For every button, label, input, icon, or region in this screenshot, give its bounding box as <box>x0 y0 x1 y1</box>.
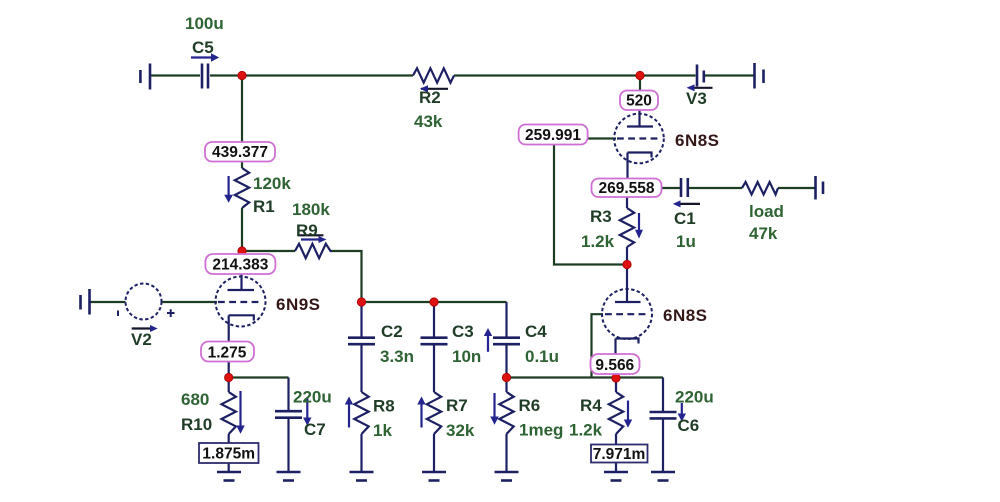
svg-text:R6: R6 <box>519 396 541 415</box>
svg-text:220u: 220u <box>293 388 332 407</box>
svg-text:3.3n: 3.3n <box>380 347 414 366</box>
wire 259.991 label down <box>554 145 627 265</box>
battery V3 <box>697 65 704 87</box>
current label 7.971m <box>591 445 648 464</box>
terminal T4 V2-left <box>81 289 90 315</box>
svg-text:C5: C5 <box>192 38 214 57</box>
svg-text:R2: R2 <box>419 88 441 107</box>
current label 1.875m <box>199 443 259 463</box>
svg-text:C1: C1 <box>674 209 696 228</box>
node dot C3 <box>430 298 438 306</box>
capacitor C3 <box>421 338 448 345</box>
arrow C1 <box>673 200 700 207</box>
wire label to R1 <box>241 161 243 168</box>
svg-text:V3: V3 <box>686 89 707 108</box>
ground C6 <box>651 472 675 481</box>
wire node2 to R9 <box>242 250 295 252</box>
lead tube2 lower plate <box>626 265 628 303</box>
lead R7 to ground <box>433 434 435 471</box>
node label 1.275 <box>201 342 254 362</box>
node dot R3/plate <box>623 260 631 268</box>
svg-text:1u: 1u <box>676 232 696 251</box>
lead R8 to ground <box>360 434 362 471</box>
arrow V3 <box>687 84 713 91</box>
lead R10 to ground <box>228 434 230 471</box>
tube V5 plate <box>627 125 653 127</box>
tube V5 cathode <box>628 153 652 158</box>
resistor R9 <box>295 244 332 258</box>
svg-text:C6: C6 <box>678 416 700 435</box>
node dot C5/R1 <box>238 71 246 79</box>
resistor R7 <box>427 392 441 434</box>
lead C2 to R8 <box>360 345 362 392</box>
svg-text:214.383: 214.383 <box>212 257 268 274</box>
resistor R1 <box>235 168 249 208</box>
resistor R2 <box>413 68 454 82</box>
svg-text:269.558: 269.558 <box>598 180 654 197</box>
svg-text:259.991: 259.991 <box>525 127 581 144</box>
node label 269.558 <box>592 179 662 198</box>
svg-text:120k: 120k <box>253 174 291 193</box>
tube V1 plate <box>228 289 255 291</box>
capacitor C4 <box>493 338 520 345</box>
svg-text:1.2k: 1.2k <box>569 421 603 440</box>
ground R6 <box>495 472 519 481</box>
svg-text:439.377: 439.377 <box>212 144 268 161</box>
wire R9 to bus corner <box>332 251 362 302</box>
lead C6 to ground <box>662 419 664 471</box>
arrow C3C4 up <box>484 328 492 352</box>
lead C4 to node <box>505 345 507 377</box>
tube V5 grid <box>617 137 661 139</box>
node dot R1/R9 <box>238 247 246 255</box>
lead C3 top <box>433 302 435 337</box>
resistor R8 <box>354 392 368 434</box>
arrow C7 <box>303 398 311 426</box>
arrow R3 <box>635 213 643 239</box>
tube V1 cathode <box>229 315 254 320</box>
terminal T1 top-left <box>140 64 150 90</box>
node dot C4/R6 <box>502 373 510 381</box>
tube V4 plate <box>615 301 641 303</box>
wire tube1 cathode node right <box>229 376 289 378</box>
ground R8 <box>350 472 374 481</box>
lead tube2 upper plate <box>638 111 640 127</box>
tube V4 grid <box>605 313 649 315</box>
arrow R4 <box>624 401 632 428</box>
lead R3 top <box>626 197 628 208</box>
lead R4 top <box>615 378 617 392</box>
svg-text:R9: R9 <box>296 221 318 240</box>
arrow R1 <box>224 176 233 203</box>
node label 259.991 <box>519 125 588 145</box>
wire EQ bus <box>362 301 507 303</box>
wire grid tube2 lower down <box>592 314 604 377</box>
node dot 520 <box>636 71 644 79</box>
arrow C5 <box>191 53 219 62</box>
wire V2 to tube1 grid <box>162 301 218 303</box>
wire lower bus <box>507 376 664 378</box>
lead C4 top <box>505 302 507 337</box>
resistor R4 <box>609 392 623 434</box>
svg-text:9.566: 9.566 <box>595 357 634 374</box>
svg-text:6N8S: 6N8S <box>675 131 720 150</box>
svg-text:R10: R10 <box>181 415 212 434</box>
node label 214.383 <box>205 254 275 274</box>
lead tube2 lower cathode <box>614 339 616 379</box>
wire C1 to load <box>689 187 743 189</box>
capacitor C6 <box>650 412 677 418</box>
arrow R10 <box>236 391 245 434</box>
svg-text:C7: C7 <box>304 420 326 439</box>
svg-text:V2: V2 <box>131 330 152 349</box>
node dot C2 <box>357 298 365 306</box>
arrow R6 <box>490 393 499 425</box>
node dot cathode1 <box>225 373 233 381</box>
svg-text:7.971m: 7.971m <box>593 446 646 463</box>
SYMBOL LEADS (navy) <box>229 111 663 472</box>
svg-text:100u: 100u <box>185 14 224 33</box>
lead R10 top <box>228 378 230 393</box>
tube V4 cathode <box>616 339 639 344</box>
svg-text:1.2k: 1.2k <box>581 232 615 251</box>
arrow R8 up <box>345 397 353 428</box>
svg-text:C2: C2 <box>381 322 403 341</box>
lead tube2 upper cathode <box>626 153 628 179</box>
lead R6 to ground <box>505 434 507 471</box>
tube V5 6N8S upper envelope <box>614 114 664 164</box>
lead C7 top <box>287 378 289 412</box>
resistor R10 <box>222 392 236 434</box>
wire V2 terminal to source <box>90 301 126 303</box>
arrow R9 <box>298 235 327 243</box>
svg-text:47k: 47k <box>749 224 778 243</box>
lead C3 to R7 <box>433 345 435 392</box>
node label 439.377 <box>205 142 275 162</box>
lead tube1 cathode <box>228 315 230 342</box>
capacitor C7 <box>275 411 302 418</box>
svg-text:6N9S: 6N9S <box>276 295 321 314</box>
svg-text:1meg: 1meg <box>519 421 563 440</box>
tube V1 6N9S envelope <box>216 277 266 327</box>
terminal T2 top-right <box>755 63 764 89</box>
svg-text:680: 680 <box>181 390 209 409</box>
wire 259.991 label to grid <box>588 137 616 139</box>
svg-text:C3: C3 <box>452 322 474 341</box>
arrow V2 <box>132 325 158 332</box>
lead C6 top <box>662 378 664 413</box>
wire top rail mid <box>210 74 413 76</box>
wire load to terminal <box>778 187 815 189</box>
svg-text:R1: R1 <box>253 197 275 216</box>
ground C7 <box>277 472 301 481</box>
VOLTAGE LABELS (magenta boxes) <box>199 91 662 464</box>
svg-text:R3: R3 <box>590 207 612 226</box>
svg-text:1.875m: 1.875m <box>202 446 255 463</box>
lead R3 bottom <box>626 247 628 265</box>
CURRENT/DIRECTION ARROWS (blue) <box>132 53 713 434</box>
tube V4 6N8S lower envelope <box>602 289 652 339</box>
svg-text:load: load <box>749 202 784 221</box>
svg-text:32k: 32k <box>446 421 475 440</box>
svg-text:520: 520 <box>626 93 652 110</box>
lead C7 to ground <box>287 419 289 471</box>
ground R7 <box>422 472 446 481</box>
svg-text:0.1u: 0.1u <box>525 347 559 366</box>
svg-text:R7: R7 <box>446 396 468 415</box>
wire R1 to node2 <box>241 208 243 251</box>
wire node1 down to label <box>241 76 243 143</box>
svg-text:6N8S: 6N8S <box>663 306 708 325</box>
node label 520 <box>620 91 658 111</box>
node label 9.566 <box>591 354 640 374</box>
capacitor C2 <box>348 338 375 345</box>
node dot cathode2/R4 <box>612 374 620 382</box>
lead C2 top <box>360 302 362 337</box>
resistor load <box>742 182 778 195</box>
terminal T3 load-right <box>816 176 824 200</box>
ground R10 <box>217 472 241 481</box>
svg-text:43k: 43k <box>414 112 443 131</box>
V2 minus tick <box>117 311 119 317</box>
ground R4 <box>604 472 628 481</box>
lead R6 top <box>505 378 507 393</box>
svg-text:C4: C4 <box>525 322 547 341</box>
wire top rail right <box>454 74 696 76</box>
arrow R2 <box>420 85 448 92</box>
resistor R3 <box>620 208 634 247</box>
svg-text:180k: 180k <box>292 200 330 219</box>
svg-text:R4: R4 <box>580 396 602 415</box>
V2 plus sign <box>167 309 175 317</box>
lead tube1 plate <box>240 274 242 290</box>
capacitor C5 <box>202 64 208 89</box>
svg-text:R8: R8 <box>373 397 395 416</box>
wire node top to 520 label <box>639 76 641 91</box>
svg-text:10n: 10n <box>452 347 481 366</box>
lead tube1 cathode to node <box>228 362 230 378</box>
svg-text:1.275: 1.275 <box>208 344 247 361</box>
tube V1 grid <box>218 301 262 303</box>
source V2 <box>126 284 162 320</box>
capacitor C1 <box>681 178 688 197</box>
arrow C6 <box>678 403 686 422</box>
svg-text:1k: 1k <box>373 421 392 440</box>
wire top rail left <box>150 74 200 76</box>
resistor R6 <box>499 392 513 434</box>
wire 269.558 label to C1 <box>662 187 681 189</box>
svg-text:220u: 220u <box>675 388 714 407</box>
GROUNDS <box>217 472 675 481</box>
arrow R7 up <box>417 397 425 428</box>
wire battery to terminal <box>705 74 755 76</box>
lead R4 to ground <box>615 434 617 471</box>
